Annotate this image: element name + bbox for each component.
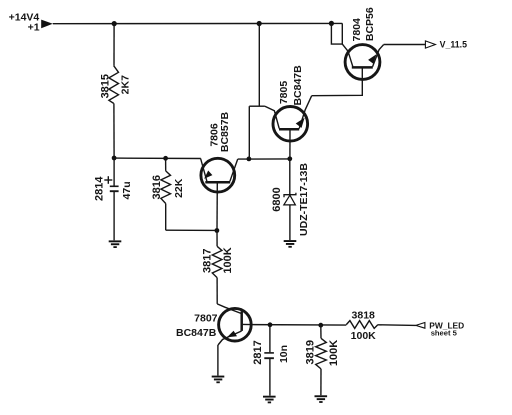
ground (2817) bbox=[263, 396, 276, 404]
svg-text:3816: 3816 bbox=[151, 175, 163, 199]
svg-text:BC847B: BC847B bbox=[292, 65, 304, 106]
node E junction dot (to 3816) bbox=[163, 156, 168, 161]
node I junction dot (2817) bbox=[268, 322, 273, 327]
zener diode 6800 UDZ-TE17-13B bbox=[271, 159, 310, 240]
node PW_LED input arrow bbox=[416, 323, 425, 329]
svg-text:BCP56: BCP56 bbox=[364, 7, 376, 41]
svg-text:BC857B: BC857B bbox=[219, 111, 231, 152]
node D junction dot (to 2814) bbox=[112, 156, 117, 161]
svg-text:100K: 100K bbox=[351, 330, 377, 342]
node +14V4 input arrow bbox=[41, 20, 53, 29]
resistor 3816 22K bbox=[151, 158, 185, 230]
svg-text:6800: 6800 bbox=[271, 187, 283, 211]
svg-text:7807: 7807 bbox=[194, 313, 218, 325]
wire rail detour rectangle at node C bbox=[331, 23, 342, 44]
resistor 3819 100K bbox=[305, 325, 340, 395]
transistor 7805 BC847B (NPN) bbox=[265, 65, 312, 159]
wire node G stub up bbox=[248, 106, 250, 159]
svg-text:47u: 47u bbox=[121, 181, 133, 199]
svg-text:100K: 100K bbox=[222, 247, 234, 273]
ground (7807 emitter) bbox=[212, 376, 225, 384]
node C junction dot (rail to 7804 collector) bbox=[329, 21, 334, 26]
svg-text:10n: 10n bbox=[278, 345, 290, 363]
wire 7805 collector to +14V4 rail bbox=[258, 24, 260, 107]
svg-text:3817: 3817 bbox=[201, 249, 213, 273]
wire 7807 base node row (y=325) bbox=[251, 324, 346, 327]
svg-text:3815: 3815 bbox=[100, 74, 112, 98]
svg-text:+1: +1 bbox=[28, 21, 40, 33]
transistor 7804 BCP56 (NPN) bbox=[342, 7, 383, 79]
node PW_LED label bbox=[429, 320, 464, 337]
node A junction dot (rail to 3815) bbox=[112, 21, 117, 26]
resistor 3817 100K bbox=[201, 231, 234, 304]
capacitor 2817 10n bbox=[252, 325, 290, 396]
svg-text:7805: 7805 bbox=[278, 81, 290, 105]
svg-text:UDZ-TE17-13B: UDZ-TE17-13B bbox=[298, 163, 310, 236]
svg-text:7804: 7804 bbox=[351, 18, 363, 42]
wire +14V4 top rail bbox=[53, 22, 343, 24]
ground (3819) bbox=[315, 395, 328, 403]
transistor 7806 BC857B (PNP) bbox=[201, 111, 238, 230]
wire node D horizontal (filtered rail y=158) bbox=[114, 157, 201, 159]
svg-text:2814: 2814 bbox=[93, 176, 105, 201]
ground (2814) bbox=[109, 240, 122, 248]
node J junction dot (3819) bbox=[318, 323, 323, 328]
node B junction dot (rail to 7805 collector) bbox=[257, 21, 262, 26]
node +14V4 label bbox=[9, 12, 40, 34]
node V_11.5 output arrow bbox=[425, 41, 435, 48]
wire 3816 bottom to node F bbox=[166, 229, 217, 231]
svg-text:sheet 5: sheet 5 bbox=[431, 328, 458, 337]
capacitor 2814 47u bbox=[93, 158, 133, 240]
svg-text:2817: 2817 bbox=[252, 340, 264, 364]
svg-text:2K7: 2K7 bbox=[120, 75, 132, 94]
wire node G horizontal connector bbox=[249, 105, 265, 107]
wire 7806 collector to node G (y=159) bbox=[238, 158, 290, 160]
svg-text:100K: 100K bbox=[328, 340, 340, 366]
transistor 7807 BC847B (NPN) bbox=[176, 304, 251, 345]
wire 7805 emitter to 7804 base bbox=[312, 68, 363, 95]
svg-text:22K: 22K bbox=[173, 178, 185, 198]
svg-text:V_11.5: V_11.5 bbox=[440, 40, 468, 50]
node H junction dot (zener / 7805 base) bbox=[287, 156, 292, 161]
wire 7804 emitter to V_11.5 bbox=[384, 44, 426, 46]
resistor 3818 100K bbox=[346, 309, 416, 342]
svg-text:3818: 3818 bbox=[352, 309, 376, 321]
ground (zener 6800) bbox=[284, 240, 297, 248]
resistor 3815 2K7 bbox=[100, 24, 132, 158]
wire 7807 emitter down bbox=[217, 345, 219, 376]
svg-text:BC847B: BC847B bbox=[176, 327, 217, 339]
node F junction dot (7806 base / 3816 / 3817) bbox=[215, 228, 220, 233]
svg-text:3819: 3819 bbox=[305, 340, 317, 364]
node G junction dot bbox=[247, 157, 252, 162]
